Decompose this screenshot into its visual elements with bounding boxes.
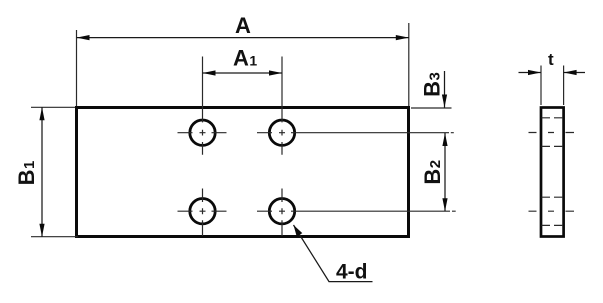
arrowhead A right <box>396 35 409 40</box>
extension line top edge right <box>411 107 452 109</box>
dimension line t right <box>564 72 585 74</box>
side view outline <box>541 108 564 237</box>
hidden line hole1 top <box>542 117 564 119</box>
hidden line hole2 bottom <box>542 224 564 226</box>
dimension line B2 <box>444 133 446 211</box>
centerline hole bottom-right <box>257 189 456 237</box>
hole bottom-left <box>190 199 215 224</box>
hole bottom-right <box>269 199 294 224</box>
extension line B1 top <box>31 106 75 108</box>
arrowhead A left <box>77 35 90 40</box>
arrowhead B2 bottom <box>442 198 447 211</box>
centerline side hole2 <box>529 210 575 212</box>
dimension line B3 <box>444 71 446 108</box>
svg-text:t: t <box>548 50 554 69</box>
extension line A1 left <box>202 57 204 123</box>
dimension line t left <box>519 72 542 74</box>
arrowhead B1 top <box>39 107 44 120</box>
plate outline front view <box>77 108 409 237</box>
dimension line A1 <box>203 72 283 74</box>
arrowhead B1 bottom <box>39 224 44 237</box>
arrowhead B3 bottom <box>442 95 447 108</box>
arrowhead A1 left <box>203 70 216 75</box>
arrowhead leader <box>294 225 303 237</box>
extension line A right <box>408 23 410 106</box>
extension line A left <box>76 30 78 106</box>
centerline side hole1 <box>529 132 575 134</box>
hole top-left <box>190 120 215 145</box>
leader line 4-d <box>294 225 373 282</box>
centerline hole bottom-left <box>178 189 227 237</box>
hidden line hole2 top <box>542 196 564 198</box>
extension line t right <box>563 66 565 106</box>
hole top-right <box>269 120 294 145</box>
arrowhead B2 top <box>442 133 447 146</box>
extension line B1 bottom <box>31 236 78 238</box>
svg-text:4-d: 4-d <box>336 261 368 284</box>
svg-text:A: A <box>235 13 251 38</box>
centerline hole top-left <box>178 130 227 155</box>
hidden line hole1 bottom <box>542 145 564 147</box>
arrowhead t left <box>528 70 541 75</box>
arrowhead A1 right <box>269 70 282 75</box>
extension line t left <box>540 66 542 106</box>
dimension line B1 <box>41 107 43 236</box>
extension line A1 right <box>281 57 283 123</box>
dimension line A <box>77 37 409 39</box>
centerline hole top-right <box>257 130 454 155</box>
arrowhead t right <box>564 70 577 75</box>
